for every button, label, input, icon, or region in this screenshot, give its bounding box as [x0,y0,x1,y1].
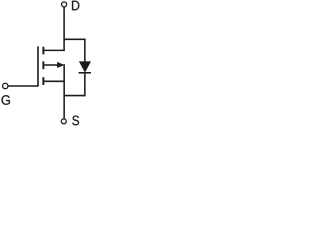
terminal D circle [62,2,67,7]
transistor Q1 body arrowhead pointing right [57,62,64,68]
transistor Q1 channel dash body segment [42,61,44,69]
label D (drain) [72,1,79,11]
wire drain vertical from D to channel [63,7,65,51]
wire diode branch horizontal at drain [64,38,86,40]
wire diode branch vertical upper [84,39,86,62]
wire drain horizontal to top channel dash [44,49,64,51]
terminal G circle [3,83,8,88]
label S (source) [72,116,79,126]
wire source horizontal from bottom channel dash [44,80,64,82]
wire source vertical from arrow junction to S [63,64,65,118]
terminal S circle [61,119,66,124]
wire source rail bottom joining diode to source [64,95,86,97]
transistor Q1 body arrow line [44,64,58,66]
transistor Q1 gate electrode vertical line [37,46,39,86]
wire diode branch vertical lower [84,74,86,97]
diode D1 body-diode triangle (cathode down) [79,61,91,72]
transistor Q1 channel dash source segment [42,77,44,85]
transistor Q1 channel dash drain segment [42,47,44,55]
diode D1 cathode bar [79,72,91,74]
label G (gate) [2,95,10,105]
wire gate horizontal from G terminal [8,85,38,87]
